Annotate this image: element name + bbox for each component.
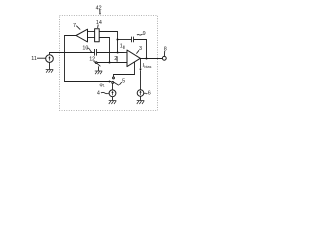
svg-text:5: 5: [122, 79, 125, 85]
svg-text:6: 6: [148, 91, 151, 97]
svg-text:4: 4: [97, 90, 100, 96]
svg-text:10: 10: [82, 45, 88, 51]
svg-text:bias: bias: [144, 65, 151, 69]
svg-text:1: 1: [120, 44, 123, 50]
svg-text:1: 1: [103, 84, 105, 88]
svg-text:3: 3: [139, 46, 142, 52]
svg-text:8: 8: [164, 47, 167, 53]
svg-text:42: 42: [96, 5, 102, 11]
svg-text:14: 14: [96, 20, 102, 26]
svg-text:11: 11: [31, 56, 37, 62]
svg-text:7: 7: [73, 23, 76, 29]
svg-text:9: 9: [143, 31, 146, 37]
svg-text:2: 2: [114, 56, 117, 62]
svg-text:12: 12: [89, 57, 95, 63]
